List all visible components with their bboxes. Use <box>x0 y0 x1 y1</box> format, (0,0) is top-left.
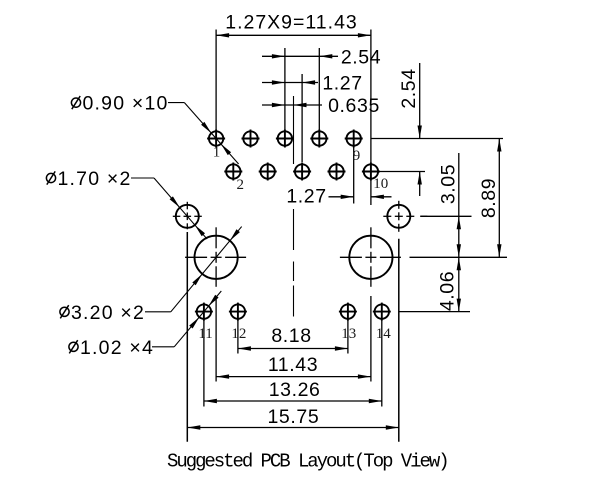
body outline right edge / ⌀1.70 right centerline <box>398 239 400 442</box>
leader ⌀1.02 to pad 11 <box>152 346 174 348</box>
extension line pad 14 <box>381 320 383 407</box>
dimension 4.06 line <box>458 257 460 311</box>
extension line pin row 1 (right) <box>371 138 503 140</box>
pad 7 (⌀0.90 hole) <box>312 131 326 145</box>
body outline left edge / ⌀1.70 left centerline <box>186 232 188 442</box>
pad 5 (⌀0.90 hole) <box>278 131 292 145</box>
svg-text:8.18: 8.18 <box>271 325 311 347</box>
hole ⌀1.70 left <box>176 205 199 228</box>
extension line pad 12 <box>237 320 239 354</box>
svg-text:1.27: 1.27 <box>286 186 326 208</box>
svg-text:Suggested PCB Layout(Top View): Suggested PCB Layout(Top View) <box>167 451 448 473</box>
extension line ⌀3.20 row (right) <box>410 256 508 258</box>
pad 8 (⌀0.90 hole) <box>329 164 343 178</box>
pad 10 (⌀0.90 hole) <box>364 164 378 178</box>
extension line pin row 2 (right) <box>378 171 426 173</box>
extension line pin9 column (below pin 9) <box>353 147 355 204</box>
svg-text:3.20 ×2: 3.20 ×2 <box>71 302 145 324</box>
pad 13 (⌀1.02 hole) <box>341 304 355 318</box>
svg-text:2.54: 2.54 <box>398 68 420 108</box>
svg-text:13.26: 13.26 <box>269 379 321 401</box>
svg-text:3.05: 3.05 <box>437 164 459 204</box>
extension line pin1 column (top) <box>215 30 217 130</box>
drawing vertical centerline <box>293 96 295 164</box>
svg-text:12: 12 <box>231 326 246 342</box>
extension line pad 13 <box>347 320 349 354</box>
hole ⌀1.70 right <box>387 205 410 228</box>
extension line big-circle left centerline (bottom) <box>215 296 217 382</box>
svg-text:1.70 ×2: 1.70 ×2 <box>58 168 132 190</box>
pad 12 (⌀1.02 hole) <box>231 304 245 318</box>
pad 11 (⌀1.02 hole) <box>197 304 211 318</box>
extension line ⌀1.70 row (right) <box>420 215 471 217</box>
svg-text:1.27X9=11.43: 1.27X9=11.43 <box>225 12 358 34</box>
leader ⌀0.90 to pad 1 <box>168 102 184 104</box>
svg-text:0.90 ×10: 0.90 ×10 <box>83 93 169 115</box>
svg-text:13: 13 <box>341 326 356 342</box>
hole ⌀3.20 right <box>349 236 392 279</box>
dimension 1.27 (pins 9-10) line with outside arrows <box>329 196 354 198</box>
pad 2 (⌀0.90 hole) <box>226 164 240 178</box>
svg-text:11.43: 11.43 <box>268 354 318 376</box>
dimension 8.18 line <box>238 348 348 350</box>
extension line big-circle right centerline (bottom) <box>370 296 372 382</box>
dimension 0.635 line with outside arrows <box>262 104 322 106</box>
extension line pin7 column <box>318 48 320 130</box>
svg-text:14: 14 <box>376 326 392 342</box>
svg-text:15.75: 15.75 <box>267 406 319 428</box>
pad 9 (⌀0.90 hole) <box>347 131 361 145</box>
svg-text:1.27: 1.27 <box>322 73 362 95</box>
label ⌀1.70 ×2 diameter symbol <box>46 173 55 182</box>
svg-text:2.54: 2.54 <box>341 46 381 68</box>
extension line pin6 column <box>301 74 303 162</box>
dimension 13.26 line <box>204 400 382 402</box>
pad 1 (⌀0.90 hole) <box>209 131 223 145</box>
leader ⌀3.20 to left big hole <box>145 311 171 313</box>
svg-text:9: 9 <box>353 148 361 164</box>
pad 14 (⌀1.02 hole) <box>375 304 389 318</box>
svg-text:1: 1 <box>213 144 221 160</box>
extension line pin10 column (top) <box>370 30 372 206</box>
dimension 8.89 line <box>498 139 500 258</box>
svg-text:0.635: 0.635 <box>328 95 380 117</box>
extension line bottom pad row (right) <box>399 311 470 313</box>
extension line pad 11 <box>203 320 205 407</box>
pad 4 (⌀0.90 hole) <box>261 164 275 178</box>
dimension 2.54 (vertical) line <box>419 63 421 139</box>
label ⌀3.20 ×2 diameter symbol <box>60 307 69 316</box>
label ⌀0.90 ×10 diameter symbol <box>71 98 80 107</box>
dimension 2.54 (top) line with outside arrows <box>262 55 338 57</box>
dimension 11.43 line <box>216 376 371 378</box>
dimension 15.75 line <box>187 427 398 429</box>
pad 3 (⌀0.90 hole) <box>243 131 257 145</box>
svg-text:1.02 ×4: 1.02 ×4 <box>80 337 154 359</box>
dimension 3.05 line <box>458 153 460 257</box>
label ⌀1.02 ×4 diameter symbol <box>69 342 78 351</box>
extension line pin5 column <box>284 48 286 130</box>
pad 6 (⌀0.90 hole) <box>295 164 309 178</box>
leader ⌀1.70 to left hole <box>131 177 154 179</box>
svg-text:2: 2 <box>237 177 245 193</box>
dimension 1.27 (top) line with outside arrows <box>262 82 318 84</box>
hole ⌀3.20 left <box>195 236 238 279</box>
svg-text:11: 11 <box>198 326 212 342</box>
svg-text:10: 10 <box>373 176 388 192</box>
dimension 1.27X9=11.43 line <box>216 34 371 36</box>
svg-text:4.06: 4.06 <box>437 271 459 311</box>
svg-text:8.89: 8.89 <box>478 178 500 218</box>
